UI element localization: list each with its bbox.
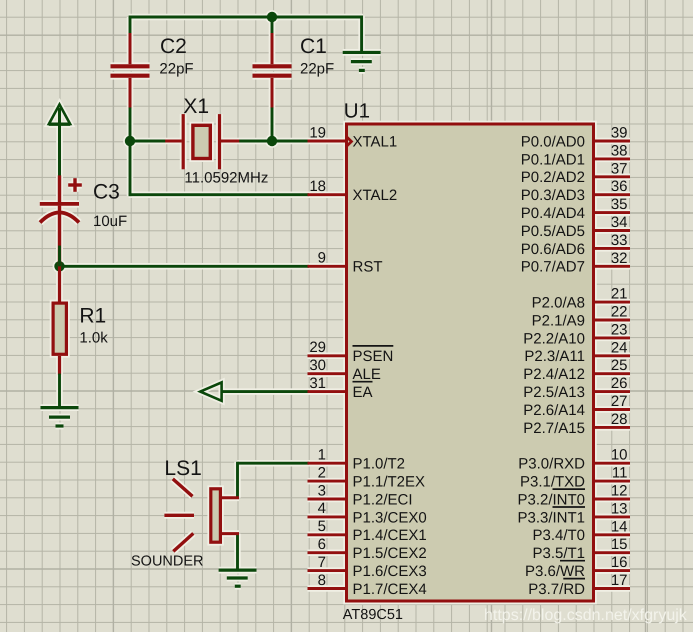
capacitor C1 (22pF) [271,33,274,64]
svg-text:X1: X1 [183,95,209,118]
terminal: left arrow on EA net [200,382,221,400]
pin 23 (P2.2/A10) stub [594,336,631,339]
svg-text:13: 13 [611,500,628,517]
svg-text:RST: RST [353,259,383,276]
pin 2 (P1.1/T2EX) stub [308,480,347,483]
svg-text:30: 30 [309,357,326,374]
pin 29 (PSEN) stub [308,354,347,357]
svg-text:P0.1/AD1: P0.1/AD1 [521,151,585,168]
wire: corner stub to C2 top pin [129,17,132,34]
pin 39 (P0.0/AD0) stub [594,140,631,143]
svg-text:11: 11 [612,465,628,482]
pin 5 (P1.4/CEX1) stub [308,533,347,536]
pin 34 (P0.5/AD5) stub [594,229,631,232]
wire: C1 bottom pin to XTAL node [271,108,274,142]
svg-text:3: 3 [318,482,326,499]
svg-text:17: 17 [611,572,628,589]
sounder LS1 body [211,489,221,542]
svg-text:C1: C1 [300,35,327,58]
svg-text:P2.5/A13: P2.5/A13 [523,384,585,401]
power: +V terminal arrow [49,105,70,125]
svg-text:P3.4/T0: P3.4/T0 [532,527,585,544]
pin 4 (P1.3/CEX0) stub [308,515,347,518]
svg-text:P3.6/WR: P3.6/WR [525,563,585,580]
svg-text:P1.3/CEX0: P1.3/CEX0 [353,509,427,526]
pin 30 (ALE) stub [308,372,347,375]
overline for WR [560,560,585,562]
svg-text:P0.5/AD5: P0.5/AD5 [521,223,585,240]
pin 8 (P1.7/CEX4) stub [308,587,347,590]
svg-text:21: 21 [611,286,628,303]
crystal X1 (11.0592MHz) [165,140,182,143]
pin 18 (XTAL2) stub [308,193,347,196]
svg-text:P1.0/T2: P1.0/T2 [353,456,406,473]
svg-text:29: 29 [309,339,326,356]
pin 1 (P1.0/T2) stub [308,462,347,465]
svg-text:P0.4/AD4: P0.4/AD4 [521,205,585,222]
svg-text:35: 35 [611,196,628,213]
wire: drop to top-right ground [360,16,363,52]
svg-text:15: 15 [611,536,628,553]
svg-text:P2.7/A15: P2.7/A15 [523,420,585,437]
svg-text:11.0592MHz: 11.0592MHz [184,170,268,187]
svg-text:27: 27 [611,393,628,410]
wire: crystal right pin to node XT1 [238,140,273,143]
wire: XTAL2 net vertical [129,140,132,197]
svg-text:7: 7 [318,554,326,571]
wire: C2 bottom pin to XTAL node [129,108,132,142]
svg-text:P1.2/ECI: P1.2/ECI [353,491,413,508]
svg-text:8: 8 [318,572,326,589]
svg-text:22pF: 22pF [159,60,193,77]
svg-text:P1.6/CEX3: P1.6/CEX3 [353,563,427,580]
pin 13 (P3.3/INT1) stub [594,515,631,518]
svg-text:P0.0/AD0: P0.0/AD0 [521,133,585,150]
pin 9 (RST) stub [308,265,347,268]
svg-text:37: 37 [611,160,628,177]
svg-text:32: 32 [611,250,628,267]
svg-text:AT89C51: AT89C51 [343,607,403,623]
pin 37 (P0.2/AD2) stub [594,175,631,178]
node: junction C2/crystal/XTAL2 [125,136,135,146]
svg-text:4: 4 [318,500,326,517]
pin 22 (P2.1/A9) stub [594,319,631,322]
pin 17 (P3.7/RD) stub [594,587,631,590]
resistor R1 bottom pin [58,356,61,375]
wire: RST net horizontal to pin 9 [60,265,309,268]
wire: LS1 bottom pin to ground [236,534,239,570]
svg-text:P3.1/TXD: P3.1/TXD [520,474,585,491]
svg-text:P1.1/T2EX: P1.1/T2EX [353,474,426,491]
pin 32 (P0.7/AD7) stub [594,265,631,268]
svg-text:P3.7/RD: P3.7/RD [528,581,585,598]
wire: node XT1 to pin 19 [272,140,309,143]
svg-text:P3.2/INT0: P3.2/INT0 [517,491,585,508]
svg-text:23: 23 [611,321,628,338]
svg-text:1.0k: 1.0k [79,329,108,346]
wire: P1.0 net vertical to LS1 [236,462,239,498]
svg-text:P0.2/AD2: P0.2/AD2 [521,169,585,186]
svg-text:C3: C3 [93,181,120,204]
wire: P1.0 net horizontal [238,462,309,465]
svg-text:P2.0/A8: P2.0/A8 [532,295,585,312]
capacitor C2 (22pF) [129,33,132,64]
svg-text:12: 12 [611,483,628,500]
ground: top-right ground symbol [343,51,381,54]
wire: junction stub to C1 top pin [271,17,274,34]
wire: top ground net horizontal (C2/C1 tops to ground) [129,16,363,19]
sounder bottom pin [222,532,239,535]
svg-text:R1: R1 [79,305,106,328]
wire: R1 bottom to ground [58,374,61,408]
pin 26 (P2.5/A13) stub [594,390,631,393]
svg-text:33: 33 [611,232,628,249]
svg-text:SOUNDER: SOUNDER [131,553,204,569]
svg-text:ALE: ALE [353,366,381,383]
svg-text:16: 16 [611,554,628,571]
svg-text:C2: C2 [160,35,187,58]
pin 25 (P2.4/A12) stub [594,372,631,375]
svg-text:36: 36 [611,178,628,195]
wire: XTAL2 net horizontal to pin 18 [129,193,309,196]
pin 27 (P2.6/A14) stub [594,408,631,411]
node: junction VSS/C1-top [267,12,277,22]
overline for INT1 [553,506,586,508]
svg-text:U1: U1 [344,100,370,123]
node: junction C1/crystal/XTAL1 [267,136,277,146]
svg-text:P2.4/A12: P2.4/A12 [523,366,585,383]
pin 35 (P0.4/AD4) stub [594,211,631,214]
svg-text:P1.7/CEX4: P1.7/CEX4 [353,581,427,598]
pin 15 (P3.5/T1) stub [594,551,631,554]
svg-text:5: 5 [318,518,326,535]
svg-text:XTAL1: XTAL1 [353,133,398,150]
svg-text:1: 1 [318,447,326,464]
svg-text:9: 9 [318,250,326,267]
pin 6 (P1.5/CEX2) stub [308,551,347,554]
wire: node XT2 to crystal left pin [129,140,166,143]
pin 16 (P3.6/WR) stub [594,569,631,572]
pin 11 (P3.1/TXD) stub [594,480,631,483]
svg-text:https://blog.csdn.net/xfgryujk: https://blog.csdn.net/xfgryujk [484,607,688,624]
capacitor C3 (10uF electrolytic) [58,175,61,202]
svg-text:P0.6/AD6: P0.6/AD6 [521,241,585,258]
svg-text:P3.0/RXD: P3.0/RXD [518,456,585,473]
pin XTAL1 clock arrow [346,136,352,147]
svg-text:P2.3/A11: P2.3/A11 [524,348,585,365]
svg-text:P2.6/A14: P2.6/A14 [523,402,585,419]
pin 31 (EA) stub [308,390,347,393]
svg-text:6: 6 [318,536,326,553]
pin 3 (P1.2/ECI) stub [308,498,347,501]
wire: EA net to pin 31 [222,390,309,393]
pin 33 (P0.6/AD6) stub [594,247,631,250]
svg-text:25: 25 [611,357,628,374]
node: junction C3/R1/RST [54,261,64,271]
pin 19 (XTAL1) stub [308,140,347,143]
pin 36 (P0.3/AD3) stub [594,193,631,196]
pin 12 (P3.2/INT0) stub [594,498,631,501]
pin 7 (P1.6/CEX3) stub [308,569,347,572]
svg-text:22pF: 22pF [300,60,334,77]
svg-text:EA: EA [353,384,373,401]
svg-text:19: 19 [309,124,326,141]
svg-text:PSEN: PSEN [353,348,394,365]
sounder top pin [222,496,239,499]
pin 10 (P3.0/RXD) stub [594,462,631,465]
overline for PSEN [353,345,394,347]
svg-text:24: 24 [611,339,628,356]
svg-text:26: 26 [611,375,628,392]
overline for EA [353,381,373,383]
svg-text:P3.3/INT1: P3.3/INT1 [517,509,585,526]
resistor R1 (1.0k) body [53,303,66,354]
overline for INT0 [553,488,586,490]
pin 24 (P2.3/A11) stub [594,354,631,357]
svg-text:2: 2 [318,464,326,481]
wire: C3 bottom to RST junction [58,246,61,268]
resistor R1 top pin [58,266,61,303]
pin 38 (P0.1/AD1) stub [594,157,631,160]
halo layer under ink [40,10,630,588]
overline for RD [563,578,585,580]
svg-text:14: 14 [611,518,628,535]
svg-text:P2.1/A9: P2.1/A9 [532,312,585,329]
pin 14 (P3.4/T0) stub [594,533,631,536]
svg-text:P0.3/AD3: P0.3/AD3 [521,187,585,204]
svg-text:28: 28 [611,411,628,428]
svg-text:P2.2/A10: P2.2/A10 [523,330,585,347]
svg-text:P0.7/AD7: P0.7/AD7 [521,259,585,276]
svg-text:31: 31 [309,375,326,392]
svg-text:22: 22 [611,304,628,321]
sounder sound-wave strokes [173,479,193,496]
svg-text:10: 10 [611,447,628,464]
ground: sounder ground symbol [219,568,257,571]
svg-text:34: 34 [611,214,628,231]
svg-text:P1.5/CEX2: P1.5/CEX2 [353,545,427,562]
svg-text:LS1: LS1 [164,457,201,480]
svg-text:39: 39 [611,125,628,142]
svg-text:10uF: 10uF [93,213,127,230]
svg-text:38: 38 [611,142,628,159]
pin 28 (P2.7/A15) stub [594,426,631,429]
svg-text:P1.4/CEX1: P1.4/CEX1 [353,527,427,544]
IC U1 AT89C51 body [347,124,594,601]
pin 21 (P2.0/A8) stub [594,301,631,304]
svg-text:P3.5/T1: P3.5/T1 [532,545,585,562]
svg-text:XTAL2: XTAL2 [353,187,398,204]
svg-text:18: 18 [309,178,326,195]
ground: R1 ground symbol [41,406,79,409]
